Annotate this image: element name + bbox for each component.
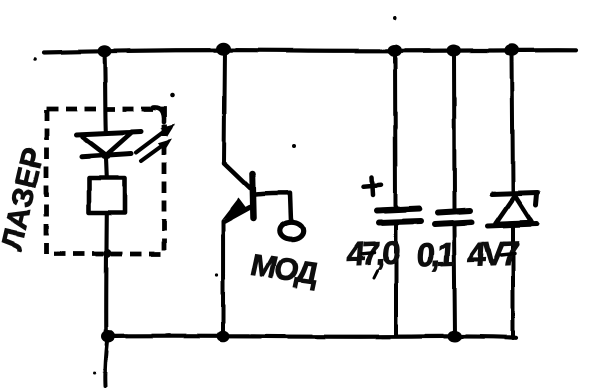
wire: stub below bottom-left junction [105, 341, 107, 386]
transistor Q1 base bar [253, 174, 254, 218]
zener diode cathode right hook [536, 194, 537, 206]
dashed box: laser module outline [47, 109, 165, 254]
speck right of transistor [292, 144, 296, 148]
polarity: plus sign [364, 185, 382, 187]
wire: capacitor 47,0 top lead [393, 51, 398, 208]
comma tail of 47,0 [374, 271, 378, 278]
wire: base lead horizontal [256, 193, 290, 194]
svg-text:МОД: МОД [248, 248, 322, 292]
zener diode VD1 cathode bar [492, 193, 538, 195]
wire: capacitor 0,1 bottom lead [454, 225, 455, 336]
speck above rail near capacitor branch [393, 17, 397, 21]
wire: base lead vertical [291, 193, 292, 221]
wire: laser branch, rail to laser diode [105, 52, 106, 132]
node: junction bottom rail / transistor emitter [217, 331, 230, 343]
zener diode triangle [496, 196, 532, 224]
arrow: light emission 2 [141, 145, 163, 161]
laser diode cathode bar [82, 154, 132, 157]
wire: capacitor 47,0 bottom lead [394, 224, 398, 335]
terminal: МОД input circle [280, 222, 303, 239]
transistor Q1 collector diagonal [224, 163, 250, 188]
svg-text:ЛАЗЕР: ЛАЗЕР [0, 144, 51, 253]
laser diode triangle left side [82, 137, 108, 157]
node: junction bottom rail / laser branch [102, 330, 116, 342]
wire: bottom return rail [104, 336, 516, 338]
node: junction top rail / laser branch [98, 45, 112, 57]
node: junction top rail / zener branch [505, 44, 520, 57]
wire: zener branch top lead [512, 51, 513, 192]
speck below emitter wire [215, 273, 218, 276]
wire: zener branch bottom lead [511, 226, 515, 338]
node: junction top rail / transistor collector [216, 42, 231, 55]
crossbar on 7 of 47,0 [362, 253, 375, 254]
wire: capacitor 0,1 top lead [452, 51, 457, 210]
crossbar on 7 of 4V7 [501, 254, 515, 256]
laser diode triangle right side [104, 133, 132, 158]
node: junction top rail / capacitor 0,1 [447, 45, 461, 57]
speck left of rail start [33, 57, 37, 61]
laser diode (LED symbol, anode bar) [76, 132, 141, 135]
capacitor C2 bottom plate [435, 222, 472, 224]
node: junction bottom rail / capacitor 0,1 [448, 331, 462, 343]
speck left of tail bottom [94, 372, 97, 375]
resistor (rectangle, inside laser module) [89, 178, 125, 213]
wire: resistor to bottom rail [104, 213, 109, 335]
arrow: light emission 1 [136, 130, 166, 153]
speck near box top right [170, 93, 175, 98]
wire: transistor collector from top rail [224, 51, 225, 163]
capacitor C1 bottom plate [379, 221, 421, 223]
node: junction top rail / capacitor 47,0 [388, 45, 402, 57]
capacitor C2 top plate [438, 211, 470, 213]
wire: laser diode to resistor [104, 158, 109, 178]
transistor Q1 emitter with arrow [225, 207, 251, 221]
dashed box corner hook top-right [153, 107, 164, 122]
ink blob where wire crosses dashed edge [104, 249, 112, 258]
zener diode anode base line [488, 224, 537, 226]
wire: top supply rail [44, 50, 576, 52]
svg-text:0,1: 0,1 [415, 237, 456, 275]
capacitor C1 top plate [377, 209, 420, 211]
wire: emitter to bottom rail [221, 221, 225, 335]
